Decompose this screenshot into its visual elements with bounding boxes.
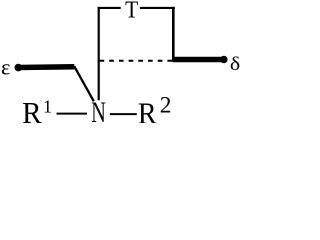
epsilon terminal dot	[14, 64, 22, 72]
diagonal bond to N	[74, 66, 94, 101]
svg-text:δ: δ	[230, 54, 240, 74]
bracket right vertical wire	[172, 7, 175, 62]
svg-text:T: T	[125, 0, 138, 23]
bracket left vertical wire	[98, 7, 100, 100]
bracket top bar left segment	[98, 7, 121, 9]
bond R1 to N	[57, 113, 88, 115]
svg-text:R: R	[138, 97, 157, 123]
bracket top bar right segment	[140, 7, 175, 9]
dashed bond	[100, 60, 174, 62]
bond N to R2	[110, 113, 137, 115]
svg-text:R: R	[22, 95, 42, 123]
bold bond to delta	[173, 57, 224, 63]
delta terminal dot	[220, 56, 227, 63]
svg-text:1: 1	[43, 97, 52, 117]
svg-text:N: N	[91, 98, 106, 123]
svg-text:ε: ε	[1, 54, 10, 79]
svg-text:2: 2	[160, 92, 172, 118]
bold bond from epsilon	[18, 64, 74, 70]
